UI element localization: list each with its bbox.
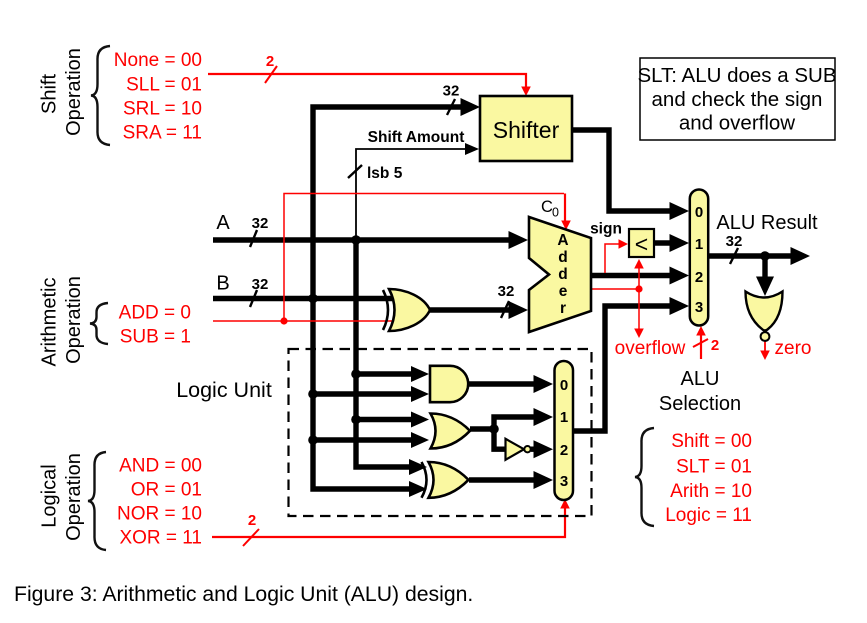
svg-text:Logic = 11: Logic = 11 [665, 505, 752, 526]
arrow: into OR input 1 [411, 412, 429, 428]
wire: shifter output down to ALU mux 0 [572, 130, 678, 211]
svg-text:Shift: Shift [39, 74, 61, 114]
ALU selection mux M1 [690, 190, 708, 326]
wire: OR gate input from B [313, 437, 416, 442]
arrow: into logic mux input 1 [534, 408, 554, 426]
arrow: into ALU mux input 1 [670, 234, 690, 252]
wire: logic mux output up to ALU mux 3 [573, 306, 678, 431]
svg-text:32: 32 [726, 233, 743, 250]
wire: arithmetic control branch to adder C0 [284, 194, 564, 322]
svg-text:and check the sign: and check the sign [652, 88, 823, 111]
svg-text:0: 0 [695, 204, 703, 221]
svg-text:2: 2 [711, 337, 719, 354]
svg-text:e: e [559, 283, 568, 300]
svg-text:Logic Unit: Logic Unit [176, 378, 272, 402]
control width slashes (red) [243, 66, 708, 546]
svg-text:B: B [216, 273, 229, 295]
svg-text:Shift = 00: Shift = 00 [671, 431, 752, 452]
arrow: into ALU mux input 3 [670, 297, 690, 315]
arrow: into AND input 2 [411, 386, 429, 402]
wire: ALU result branch down to zero gate [762, 256, 767, 282]
svg-text:Figure 3: Arithmetic and Logic: Figure 3: Arithmetic and Logic Unit (ALU… [14, 583, 473, 606]
svg-text:lsb 5: lsb 5 [367, 165, 403, 182]
arrow: into OR input 2 [411, 432, 429, 448]
arrow: into ALU mux input 0 [670, 202, 690, 220]
wire: shift amount (lsb 5 of A) [356, 149, 470, 240]
slash: shifter input 32 [447, 99, 455, 115]
node: AND input B junction [308, 389, 318, 399]
logic unit mux M2 [555, 361, 574, 500]
label: Arithmetic Operation (rotated) [39, 276, 86, 366]
node: B tap junction [308, 294, 318, 304]
comparator U3 (slt) [629, 229, 654, 257]
svg-text:OR = 01: OR = 01 [131, 480, 202, 501]
wire: XOR2 gate output to adder [428, 307, 516, 312]
arrow: into logic mux input 2 [534, 440, 554, 458]
wire: AND output to logic mux 0 [469, 381, 541, 386]
svg-text:r: r [560, 300, 566, 317]
wire: shift operation control to shifter [208, 74, 526, 90]
wire: zero output from NOR bubble [764, 341, 766, 353]
label: shift operation encodings [114, 50, 202, 144]
wire: overflow branch up to comparator [638, 265, 640, 289]
svg-text:2: 2 [560, 442, 568, 459]
slash: B bus 32 [250, 290, 257, 307]
arrow: ALU result out [791, 247, 811, 265]
arrow: into XOR input 2 [409, 481, 427, 497]
svg-text:A: A [216, 212, 230, 234]
shifter U1 [480, 96, 572, 161]
xor gate X1 (B invert for SUB) [383, 289, 430, 331]
svg-text:3: 3 [695, 299, 703, 316]
adder U2 [529, 217, 591, 332]
svg-text:Shift Amount: Shift Amount [368, 129, 465, 146]
wire: comparator output to ALU mux 1 [654, 240, 678, 245]
wire: ALU selection control to ALU mux select [700, 333, 702, 359]
brace for logical operation group [88, 452, 106, 550]
wire: adder output to ALU mux 2 [591, 273, 678, 278]
svg-text:A: A [557, 232, 568, 249]
svg-text:32: 32 [252, 215, 269, 232]
wire: sign tap from adder output to comparator [605, 244, 621, 273]
arrow: into logic mux input 3 [534, 471, 554, 489]
node: red overflow junction [635, 285, 642, 292]
red control wires [208, 74, 765, 537]
arrow: red shift control into shifter top [521, 87, 531, 97]
arrow: shift amount into shifter [465, 143, 479, 155]
wire: XOR output to logic mux 3 [469, 477, 541, 482]
svg-text:overflow: overflow [615, 338, 686, 359]
red arrowheads [521, 87, 770, 509]
svg-text:3: 3 [560, 473, 568, 490]
svg-text:Selection: Selection [659, 393, 741, 415]
label: C0 carry in [541, 198, 559, 220]
bus width slashes (black) [250, 99, 738, 318]
brace for shift operation group [91, 46, 110, 145]
label: logical operation encodings [117, 456, 202, 549]
svg-text:d: d [558, 266, 567, 283]
node: AND input A junction [351, 369, 361, 379]
logic unit dashed box [289, 349, 592, 516]
svg-text:and overflow: and overflow [679, 112, 795, 135]
arrow: red C0 into adder top [561, 221, 571, 231]
wire: AND gate input from A [356, 371, 416, 376]
wire: AND gate input from B [313, 391, 416, 396]
slash: ALU selection control 2 [693, 339, 708, 347]
svg-text:Operation: Operation [63, 276, 85, 364]
svg-text:d: d [558, 249, 567, 266]
node: result branch junction [760, 251, 770, 261]
svg-text:Shifter: Shifter [493, 117, 560, 143]
svg-text:<: < [635, 231, 648, 257]
arrow: into AND input 1 [411, 366, 429, 382]
svg-text:0: 0 [560, 377, 568, 394]
svg-text:Logical: Logical [39, 464, 61, 527]
arrow: red ALU selection into ALU mux bottom [696, 326, 706, 336]
arrow: red overflow branch into comparator bottom [634, 259, 644, 269]
svg-text:Operation: Operation [63, 48, 85, 136]
AND gate G1 [430, 366, 468, 402]
label: ALU Selection [659, 368, 741, 415]
svg-text:SLL = 01: SLL = 01 [126, 75, 202, 96]
wire: bus A horizontal [213, 237, 516, 242]
label: Logical Operation (rotated) [39, 453, 86, 541]
label: arithmetic operation encodings [119, 303, 191, 348]
slash: shift control 2 [265, 66, 277, 83]
wire: bus B horizontal [213, 296, 397, 301]
slash: ALU result 32 [730, 248, 738, 264]
svg-text:2: 2 [695, 269, 703, 286]
arrow: down into zero NOR gate [756, 277, 774, 297]
slash: adder B input 32 [501, 301, 509, 318]
wire: bus A vertical drop into logic unit [356, 240, 414, 467]
node: red arithmetic control junction [280, 317, 287, 324]
junction dots [280, 235, 769, 445]
svg-text:Arith = 10: Arith = 10 [670, 481, 752, 502]
arrow: red zero down [760, 351, 770, 361]
svg-text:AND = 00: AND = 00 [119, 456, 202, 477]
svg-text:Arithmetic: Arithmetic [39, 278, 61, 367]
wire: OR output to junction [470, 426, 494, 431]
svg-text:32: 32 [443, 83, 460, 100]
svg-text:ALU Result: ALU Result [716, 212, 818, 234]
svg-text:zero: zero [775, 338, 812, 359]
slash: lsb 5 [348, 165, 362, 178]
label: ALU selection encodings [665, 431, 752, 526]
svg-text:1: 1 [695, 236, 703, 253]
wire: ALU result output [709, 253, 798, 258]
svg-text:sign: sign [590, 221, 622, 238]
NOT gate G3 [506, 439, 531, 460]
svg-text:2: 2 [266, 53, 274, 70]
arrow: into XOR input 1 [409, 459, 427, 475]
brace for ALU selection group [635, 428, 654, 526]
label: Shift Operation (rotated) [39, 48, 86, 136]
svg-text:0: 0 [552, 206, 559, 220]
wire: bus B vertical riser to shifter and drop to logic unit [313, 107, 466, 489]
svg-text:None = 00: None = 00 [114, 50, 202, 71]
wire: OR gate input from A [356, 417, 416, 422]
wire: overflow tap from adder [591, 288, 639, 290]
node: OR output junction [489, 424, 499, 434]
arrow: red sign into comparator [619, 239, 629, 249]
wire: OR junction up to logic mux 1 [494, 417, 541, 429]
svg-text:SUB = 1: SUB = 1 [120, 327, 191, 348]
svg-text:SLT = 01: SLT = 01 [676, 457, 752, 478]
XOR gate G4 [422, 462, 469, 498]
svg-text:SRA = 11: SRA = 11 [123, 123, 202, 144]
OR gate G2 [431, 414, 471, 449]
svg-text:XOR = 11: XOR = 11 [119, 528, 202, 549]
wire: NOT output to logic mux 2 [531, 447, 541, 452]
arrow: into logic mux input 0 [534, 375, 554, 393]
svg-text:2: 2 [248, 512, 256, 529]
svg-text:SLT: ALU does a SUB: SLT: ALU does a SUB [637, 64, 836, 87]
wire: logical operation control to logic mux select [212, 506, 565, 537]
brace for arithmetic operation group [90, 303, 108, 344]
wire: OR junction down to NOT gate [494, 429, 506, 449]
arrow: into ALU mux input 2 [670, 267, 690, 285]
node: A tap junction [351, 235, 361, 245]
slash: A bus 32 [250, 230, 257, 247]
arrow: red logical control into logic mux bottom [560, 499, 570, 509]
black arrowheads [409, 98, 810, 497]
arrow: XOR2 result into adder [509, 301, 529, 319]
node: OR input B junction [308, 435, 318, 445]
svg-text:NOR = 10: NOR = 10 [117, 504, 202, 525]
svg-text:ALU: ALU [681, 368, 720, 390]
svg-text:1: 1 [560, 409, 568, 426]
svg-text:32: 32 [498, 283, 515, 300]
wire: overflow branch down to overflow label [638, 289, 640, 331]
slash: logical control 2 [243, 529, 259, 546]
svg-text:SRL = 10: SRL = 10 [123, 99, 202, 120]
zero NOR gate G5 [746, 292, 783, 341]
arrow: red overflow down [634, 329, 644, 339]
SLT note box [637, 58, 836, 140]
svg-text:32: 32 [252, 276, 269, 293]
arrow: B into shifter data input [461, 98, 481, 116]
svg-text:Operation: Operation [63, 453, 85, 541]
node: OR input A junction [351, 415, 361, 425]
wire: arithmetic operation control to XOR2 [213, 320, 397, 322]
svg-text:ADD = 0: ADD = 0 [119, 303, 191, 324]
arrow: A into adder [509, 231, 529, 249]
